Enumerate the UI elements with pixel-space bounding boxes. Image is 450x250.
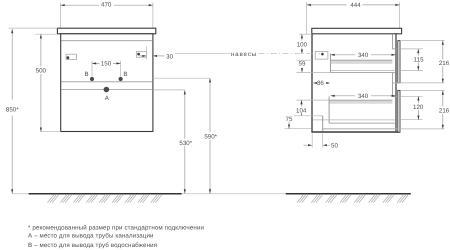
svg-text:B: B <box>85 71 89 78</box>
dim 216 top line <box>442 41 444 83</box>
dim 216 top arrow down <box>442 79 444 83</box>
dim 216 bottom extension bottom <box>395 128 445 130</box>
dim 100 arrow top <box>301 34 303 38</box>
svg-text:850*: 850* <box>6 107 19 114</box>
dim 100 label bg <box>295 41 310 48</box>
point B right dot <box>119 77 123 81</box>
hangers leader line solid part <box>175 53 230 55</box>
drawer1 front rail top step <box>392 48 396 50</box>
svg-text:590*: 590* <box>204 134 217 141</box>
countertop front view <box>57 28 155 34</box>
dim 120 label bg <box>412 103 425 110</box>
dim 590 line <box>209 78 211 193</box>
dim 150 line <box>92 62 121 64</box>
back panel notch vertical <box>322 116 324 131</box>
drawer divider line lower <box>61 89 152 91</box>
dim 86 arrow right <box>326 82 330 84</box>
dim 104 extension bottom dashed <box>284 115 313 117</box>
svg-text:444: 444 <box>350 2 361 9</box>
dim 500 arrow top <box>40 34 42 38</box>
dim 216 bottom arrow up <box>442 91 444 95</box>
hanger plate left dot <box>67 56 70 59</box>
dim 50 arrow left <box>308 144 312 146</box>
drawer2 front rail top step <box>392 96 396 98</box>
dim 530 arrow top <box>184 90 186 94</box>
drawer2 front panel <box>398 90 400 132</box>
dim 59 label bg <box>297 61 307 67</box>
hanger plate right dot <box>137 53 140 56</box>
svg-text:50: 50 <box>331 143 338 150</box>
dim 216 top arrow up <box>442 41 444 45</box>
drawer1 rail line <box>330 69 395 71</box>
svg-text:* рекомендованный размер при с: * рекомендованный размер при стандартном… <box>28 224 205 231</box>
dim 216 top extension bottom <box>392 82 444 84</box>
dim 500 arrow bottom <box>40 128 42 132</box>
svg-text:150: 150 <box>101 61 112 68</box>
dim 850 line <box>11 29 13 194</box>
drawer1 back panel <box>329 54 331 73</box>
point B left dot <box>90 77 94 81</box>
floor hatching right <box>297 195 408 203</box>
dim 59 arrow top <box>301 60 303 64</box>
dim 150 arrow right <box>116 62 120 64</box>
dim 75 line <box>288 116 290 129</box>
dim 59 extension top <box>297 59 313 61</box>
drawer2 back panel <box>328 97 330 124</box>
dim 30 line inner tail <box>140 55 143 57</box>
drawer front top edge line <box>61 40 152 42</box>
dim 500 label bg <box>34 67 48 75</box>
cabinet left wall side view <box>311 34 313 133</box>
dim 59 extension bottom <box>297 71 331 73</box>
dim 444 extension line left <box>306 2 308 34</box>
svg-text:115: 115 <box>414 56 424 63</box>
svg-text:216: 216 <box>439 107 450 114</box>
hangers leader line dashed part <box>259 53 321 55</box>
dim 590 arrow top <box>209 78 211 82</box>
svg-text:470: 470 <box>101 1 112 8</box>
svg-text:B: B <box>123 71 127 78</box>
dim 115 arrow bottom <box>417 66 419 70</box>
svg-text:120: 120 <box>413 104 424 111</box>
dim 850 extension top <box>9 27 58 29</box>
dim 340 bottom arrow right <box>392 95 396 97</box>
svg-text:В – место для вывода труб водо: В – место для вывода труб водоснабжения <box>28 242 157 249</box>
svg-text:86: 86 <box>317 80 324 87</box>
dim 470 label bg <box>99 1 114 9</box>
svg-text:216: 216 <box>439 60 450 67</box>
dim 115 label bg <box>412 56 425 63</box>
back panel notch top <box>313 115 323 117</box>
svg-text:75: 75 <box>286 116 293 123</box>
dim 104 arrow bottom <box>300 112 302 116</box>
hanger plate right <box>136 52 146 58</box>
hanger side view box <box>315 52 328 60</box>
dim 500 extension top <box>35 33 57 35</box>
dim 50 extension left <box>311 134 313 148</box>
dim 120 extension top <box>401 95 423 97</box>
svg-text:30: 30 <box>166 53 173 60</box>
dim 340 bottom arrow left <box>331 95 335 97</box>
dim 216 bottom line <box>442 91 444 129</box>
dim 75 arrow bottom <box>288 125 290 129</box>
drawer1 top line <box>330 59 392 61</box>
dim 50 line right tail <box>328 144 330 146</box>
dim 470 extension line left <box>60 3 62 29</box>
dim 340 bottom label bg <box>355 92 371 100</box>
dim 50 extension right <box>322 134 324 148</box>
extension line B level to 590 <box>153 77 210 79</box>
drawer1 front rail upper vertical <box>391 34 393 49</box>
dim 216 bottom arrow down <box>442 125 444 129</box>
drawer1 front panel <box>398 41 400 83</box>
dim 530 arrow bottom <box>184 189 186 193</box>
dim 115 line <box>417 49 419 71</box>
drawer1 bottom line <box>330 72 395 74</box>
drawer2 rail band <box>330 101 393 104</box>
dim 115 arrow top <box>417 49 419 53</box>
dim 104 extension top <box>297 99 330 101</box>
dim 120 extension bottom <box>401 119 423 121</box>
dim 850 arrow bottom <box>11 189 13 193</box>
dim 500 line <box>40 34 42 132</box>
dim 444 arrow left <box>307 4 311 6</box>
dim 30 line outer <box>158 55 165 57</box>
svg-text:100: 100 <box>297 42 308 49</box>
dim 470 line <box>61 4 153 6</box>
dim 86 arrow left <box>313 82 317 84</box>
dim 30 extension line <box>146 46 148 59</box>
drawer1 rail band <box>331 61 393 64</box>
dim 444 extension line right <box>399 2 401 28</box>
dim 470 extension line right <box>152 3 154 29</box>
dim 120 line <box>417 96 419 119</box>
cabinet front edge side view <box>395 34 397 132</box>
dim 115 extension bottom <box>401 69 423 71</box>
dim 340 top line <box>331 54 396 56</box>
cabinet bottom side view <box>311 131 400 133</box>
drawer2 bottom line <box>329 122 395 124</box>
dim 75 arrow top <box>288 116 290 120</box>
dim 530 line <box>184 90 186 193</box>
svg-text:А – место для вывода трубы кан: А – место для вывода трубы канализации <box>28 233 154 240</box>
dim 150 label bg <box>100 60 114 68</box>
dim 50 line left tail <box>304 144 308 146</box>
dim 150 extension line right <box>120 61 122 77</box>
extension line A level to 530 <box>153 89 185 91</box>
drawer divider line upper <box>61 81 152 83</box>
dim 100 extension top <box>299 33 312 35</box>
dim 150 extension line left <box>91 61 93 77</box>
svg-text:500: 500 <box>36 68 47 75</box>
dim 216 bottom label bg <box>437 106 450 113</box>
dim 100 line <box>301 34 303 54</box>
floor thin lead-in left <box>12 193 28 195</box>
dim 340 top label bg <box>355 51 371 59</box>
dim 340 bottom line <box>331 95 396 97</box>
inter-drawer front rail vertical <box>391 73 393 97</box>
dim 104 line <box>301 100 303 116</box>
dim 590 arrow bottom <box>209 189 211 193</box>
dim 120 arrow top <box>417 96 419 100</box>
dim 120 arrow bottom <box>417 116 419 120</box>
floor thin connector middle <box>182 193 286 195</box>
hanger side view dot <box>321 53 324 56</box>
point A dot <box>104 87 110 93</box>
dim 150 arrow left <box>92 62 96 64</box>
dim 30 arrow outer <box>153 55 157 57</box>
dim 115 extension top <box>401 48 423 50</box>
dim 75 extension bottom <box>285 128 312 130</box>
dim 470 arrow right <box>149 4 153 6</box>
bottom panel top line <box>323 128 395 130</box>
dim 59 arrow bottom <box>301 68 303 72</box>
drawer2 top line <box>329 99 392 101</box>
dim 216 top extension top <box>401 40 445 42</box>
dim 444 label bg <box>347 1 363 9</box>
svg-text:навесы: навесы <box>231 51 257 58</box>
countertop side view <box>312 28 402 34</box>
dim 30 arrow inner <box>142 55 146 57</box>
svg-text:530*: 530* <box>179 140 192 147</box>
floor hatching left <box>48 195 162 203</box>
hanger plate left <box>66 54 77 59</box>
dim 104 label bg <box>294 107 309 114</box>
floor line left thick <box>29 193 182 195</box>
dim 100 arrow bottom <box>301 50 303 54</box>
dim 530 label bg <box>177 139 195 147</box>
drawer2 rail line <box>313 119 395 121</box>
dim 444 arrow right <box>395 4 399 6</box>
dim 850 label bg <box>4 100 22 116</box>
dim 216 top label bg <box>437 59 450 66</box>
dim 75 label bg <box>284 115 294 121</box>
dim 470 arrow left <box>61 4 65 6</box>
dim 340 top arrow left <box>331 54 335 56</box>
dim 216 bottom extension top <box>400 90 444 92</box>
dim 500 extension bottom <box>41 131 61 133</box>
svg-text:59: 59 <box>299 61 306 68</box>
svg-text:340: 340 <box>358 93 369 100</box>
dim 590 label bg <box>202 132 220 140</box>
dim 59 line <box>301 60 303 72</box>
cabinet body front view <box>61 34 153 132</box>
floor line right thick <box>286 193 411 195</box>
dim 104 arrow top <box>300 100 302 104</box>
inter-drawer stretcher top line <box>392 82 396 84</box>
svg-text:104: 104 <box>296 107 307 114</box>
dim 340 top arrow right <box>392 54 396 56</box>
svg-text:340: 340 <box>358 52 369 59</box>
dim 444 line <box>307 4 400 6</box>
dim 850 arrow top <box>11 29 13 33</box>
dim 50 arrow right <box>323 144 327 146</box>
